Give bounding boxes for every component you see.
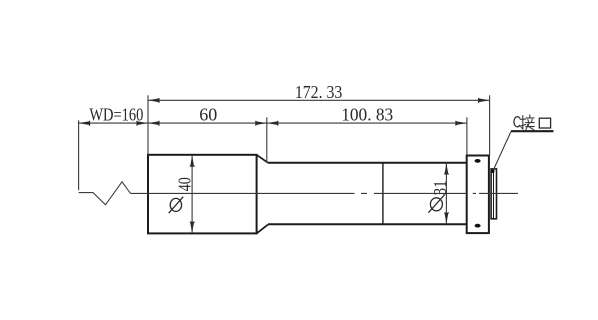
svg-text:WD=160: WD=160 <box>89 104 143 124</box>
diameter symbol for Φ31 <box>428 195 444 213</box>
lens barrel Φ40 <box>148 155 257 234</box>
tube Φ31 <box>268 163 467 224</box>
svg-text:60: 60 <box>199 104 217 124</box>
C-mount thread <box>491 169 496 219</box>
dimension 60 <box>148 121 267 126</box>
leader dot <box>491 169 495 173</box>
label text C <box>514 117 520 127</box>
dimension 172.33 <box>148 99 490 101</box>
dimension 100.83 <box>267 121 467 126</box>
chamfer taper <box>257 155 268 234</box>
object plane break line <box>79 182 131 205</box>
svg-text:31: 31 <box>430 180 450 195</box>
label underline C接口 <box>511 130 554 132</box>
dimension WD=160 <box>79 122 467 124</box>
hanzi 接 <box>520 115 534 130</box>
extension line chamfer end <box>266 117 268 162</box>
svg-text:40: 40 <box>174 177 194 191</box>
screw hole top <box>475 159 481 163</box>
flange <box>467 156 489 234</box>
extension line WD left <box>78 120 80 190</box>
dimension Φ31 <box>445 163 447 224</box>
screw hole bottom <box>475 224 481 228</box>
svg-text:172. 33: 172. 33 <box>295 82 343 102</box>
extension line flange right <box>489 95 491 155</box>
hanzi 口 <box>539 118 550 128</box>
diameter symbol for Φ40 <box>169 197 184 214</box>
tube division line <box>382 163 384 224</box>
dimension Φ40 <box>191 155 193 233</box>
svg-text:100. 83: 100. 83 <box>341 104 393 124</box>
extension line barrel front <box>147 95 149 155</box>
extension line flange left <box>466 117 468 155</box>
centerline <box>131 192 519 194</box>
leader line C-mount <box>493 132 511 172</box>
